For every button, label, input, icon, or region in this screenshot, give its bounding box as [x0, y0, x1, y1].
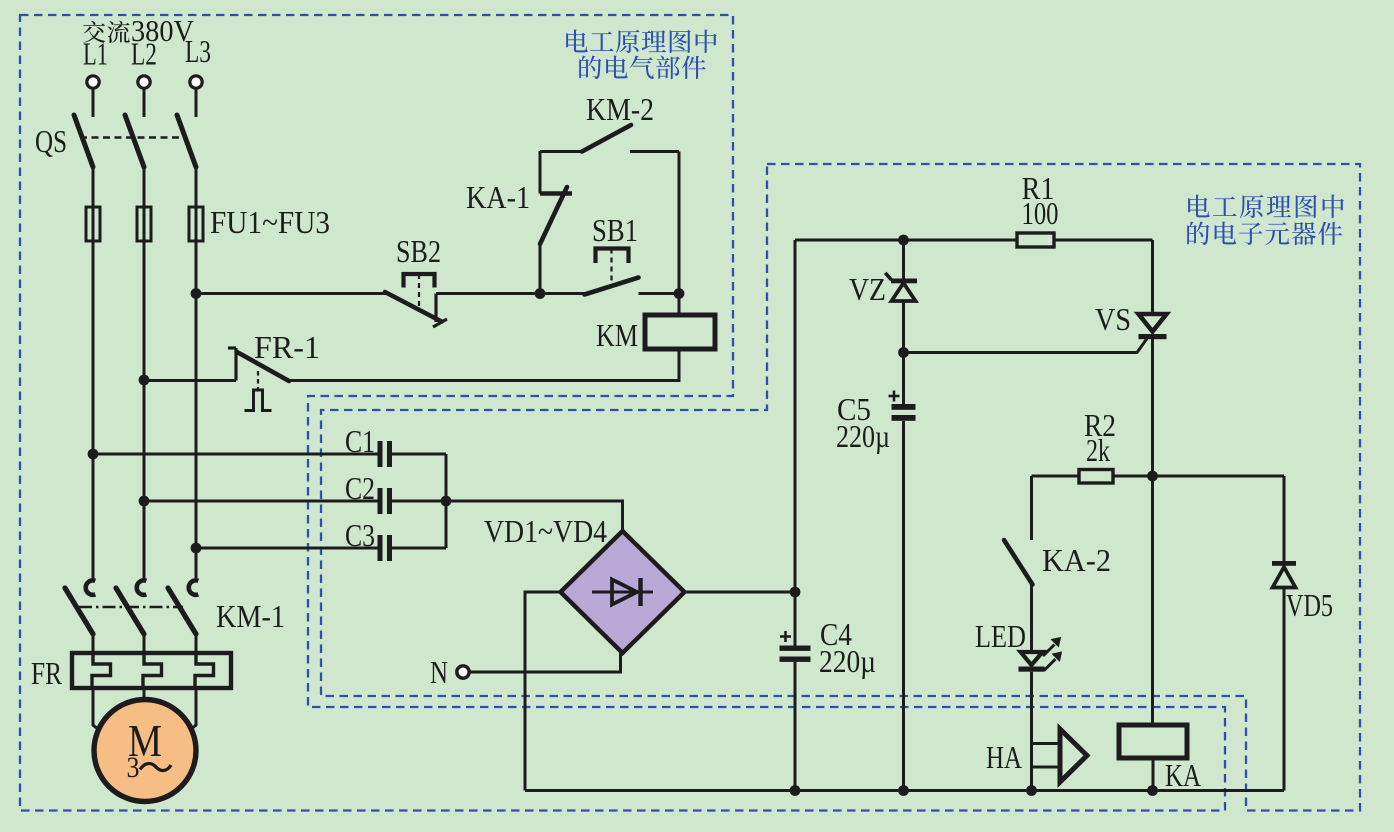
svg-text:L1: L1	[83, 36, 108, 72]
capacitor C3	[378, 535, 383, 561]
KM-1 gang dash-dot link	[79, 606, 183, 608]
svg-text:KM: KM	[596, 317, 638, 353]
contactor KM-1 pole 3	[189, 580, 199, 594]
terminal N	[457, 666, 469, 678]
contact KA-1 (NC)	[539, 151, 542, 194]
switch QS blade pole 2	[125, 115, 144, 167]
wire capacitor bank tie	[445, 454, 448, 548]
node: gate junction	[898, 347, 909, 358]
relay coil KA	[1119, 725, 1187, 758]
top DC rail	[795, 239, 1017, 242]
wire below terminal L2	[143, 89, 146, 118]
svg-text:VS: VS	[1095, 301, 1131, 337]
contact FR-1 (thermal, NC)	[144, 379, 236, 382]
capacitor C4 220u (+)	[780, 635, 791, 638]
contactor KM-1 pole 2	[137, 580, 147, 594]
thyristor VS	[1151, 240, 1154, 314]
svg-text:VD5: VD5	[1286, 587, 1333, 623]
wire KM coil bottom	[286, 349, 679, 381]
node: capacitor bank junction	[441, 496, 452, 507]
svg-text:KA: KA	[1165, 757, 1201, 793]
svg-text:HA: HA	[986, 739, 1022, 775]
node: KA-1/SB1 junction	[535, 288, 546, 299]
capacitor C1	[378, 441, 383, 467]
node: FR-1 tap on L2	[139, 375, 150, 386]
wire L1 phase down	[92, 241, 95, 578]
bottom rail (negative bus)	[525, 789, 1284, 792]
svg-text:QS: QS	[35, 123, 67, 159]
svg-text:2k: 2k	[1086, 432, 1110, 468]
wire caps to bridge	[446, 501, 623, 531]
node: C4 bottom	[790, 785, 801, 796]
wire bridge output to C4 rail	[685, 591, 796, 594]
terminal L3 circle	[190, 76, 202, 88]
wire below terminal L3	[195, 89, 198, 118]
switch QS blade pole 3	[177, 115, 196, 167]
node: KA bottom	[1147, 785, 1158, 796]
motor M 3~	[94, 700, 196, 802]
svg-text:220µ: 220µ	[819, 643, 876, 679]
FR heater element 2	[143, 653, 162, 688]
wire QS pole 2 to fuse	[143, 167, 146, 207]
wire KM-2 right down	[678, 152, 681, 294]
wire bridge left to bottom rail	[525, 592, 561, 791]
wire N to bridge	[470, 653, 621, 672]
capacitor C5 220u (+)	[889, 395, 900, 398]
svg-text:FU1~FU3: FU1~FU3	[210, 204, 330, 240]
dashed region box: electronic components (电子元器件)	[321, 164, 1360, 811]
svg-text:SB2: SB2	[396, 233, 441, 269]
terminal L1 circle	[87, 76, 99, 88]
node: C3 tap on L3	[191, 543, 202, 554]
svg-text:LED: LED	[975, 618, 1026, 654]
fuse FU1	[86, 207, 100, 241]
node: C5 bottom	[898, 785, 909, 796]
node: SB1 right junction	[674, 288, 685, 299]
node: LED branch bottom	[1026, 785, 1037, 796]
svg-text:L2: L2	[131, 36, 157, 72]
capacitor C2	[378, 488, 383, 514]
svg-text:N: N	[430, 654, 448, 690]
svg-text:C2: C2	[345, 470, 375, 506]
resistor R1 100	[1017, 233, 1054, 247]
node: bridge + output	[790, 587, 801, 598]
thermal relay FR box	[72, 653, 231, 688]
zener diode VZ	[902, 240, 905, 281]
LED indicator	[1021, 652, 1043, 665]
wire L3 tap to SB2	[196, 292, 390, 295]
FR heater element 3	[195, 653, 214, 688]
resistor R2 2k	[1032, 475, 1080, 478]
diode VD5	[1283, 476, 1286, 563]
svg-text:L3: L3	[185, 33, 211, 69]
node: VZ branch	[898, 235, 909, 246]
pushbutton SB1 (NO)	[540, 292, 585, 295]
wire L2 phase down	[143, 241, 146, 578]
wire FR to motor right	[185, 688, 196, 734]
FR heater element 1	[92, 653, 111, 688]
contact KM-2 (NO)	[540, 150, 582, 153]
svg-text:220µ: 220µ	[836, 418, 890, 454]
bridge rectifier VD1~VD4	[561, 531, 685, 653]
node: C2 tap on L2	[139, 496, 150, 507]
coil KM	[678, 294, 681, 316]
node: C1 tap on L1	[88, 449, 99, 460]
svg-text:C3: C3	[345, 517, 375, 553]
contactor KM-1 pole 1	[86, 580, 96, 594]
svg-text:KM-1: KM-1	[216, 598, 285, 634]
node: control tap on L3	[191, 288, 202, 299]
wire to capacitor C1	[93, 453, 378, 456]
svg-text:3: 3	[127, 751, 140, 784]
fuse FU2	[137, 207, 151, 241]
label 交流380V	[83, 21, 105, 43]
terminal L2 circle	[138, 76, 150, 88]
wire below terminal L1	[92, 89, 95, 118]
wire FR to motor left	[93, 688, 104, 734]
svg-text:KM-2: KM-2	[586, 91, 654, 127]
pushbutton SB2 (NC)	[404, 274, 435, 288]
svg-text:C1: C1	[345, 423, 375, 459]
title: 电工原理图中/的电子元器件 (box 2)	[1188, 195, 1210, 218]
svg-text:KA-2: KA-2	[1042, 542, 1111, 578]
svg-text:FR: FR	[31, 655, 63, 691]
buzzer HA	[1032, 742, 1061, 745]
svg-text:FR-1: FR-1	[254, 329, 320, 365]
title: 电工原理图中/的电气部件 (box 1)	[566, 30, 588, 53]
wire QS pole 3 to fuse	[195, 167, 198, 207]
svg-text:100: 100	[1022, 195, 1059, 231]
svg-text:KA-1: KA-1	[466, 179, 530, 215]
node: R2/VS junction	[1147, 471, 1158, 482]
wire L3 phase down	[195, 241, 198, 578]
wire FR to motor mid	[143, 688, 146, 700]
switch QS blade pole 1	[74, 115, 93, 167]
wire to capacitor C2	[144, 500, 378, 503]
wire QS pole 1 to fuse	[92, 167, 95, 207]
svg-text:VD1~VD4: VD1~VD4	[484, 513, 607, 549]
QS gang dashed link	[80, 136, 183, 139]
wire + rail up	[794, 240, 797, 646]
fuse FU3	[189, 207, 203, 241]
svg-text:VZ: VZ	[849, 271, 886, 307]
wire SB2 to KA-1 node	[436, 292, 540, 295]
VS gate wire	[904, 339, 1148, 353]
contact KA-2 (NO)	[1030, 476, 1033, 540]
svg-text:SB1: SB1	[592, 212, 638, 248]
wire to capacitor C3	[196, 547, 378, 550]
